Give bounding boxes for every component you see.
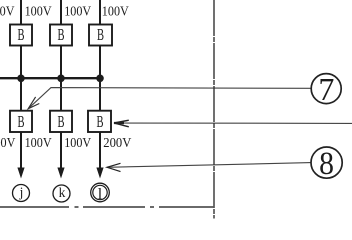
svg-text:7: 7 <box>318 71 334 107</box>
svg-text:B: B <box>17 112 24 131</box>
svg-text:100V: 100V <box>64 4 91 19</box>
svg-text:B: B <box>96 112 103 131</box>
svg-text:100V: 100V <box>25 135 52 150</box>
svg-text:100V: 100V <box>0 4 15 19</box>
svg-text:k: k <box>59 185 66 200</box>
svg-text:B: B <box>17 26 24 45</box>
svg-text:B: B <box>57 26 64 45</box>
svg-text:B: B <box>97 26 104 45</box>
svg-text:100V: 100V <box>25 4 52 19</box>
svg-text:200V: 200V <box>103 135 131 150</box>
svg-text:j: j <box>19 185 24 200</box>
svg-text:100V: 100V <box>102 4 129 19</box>
svg-text:8: 8 <box>319 145 334 182</box>
svg-text:100V: 100V <box>0 135 16 150</box>
svg-text:l: l <box>98 186 103 203</box>
svg-text:B: B <box>57 112 64 131</box>
svg-text:100V: 100V <box>64 135 91 150</box>
